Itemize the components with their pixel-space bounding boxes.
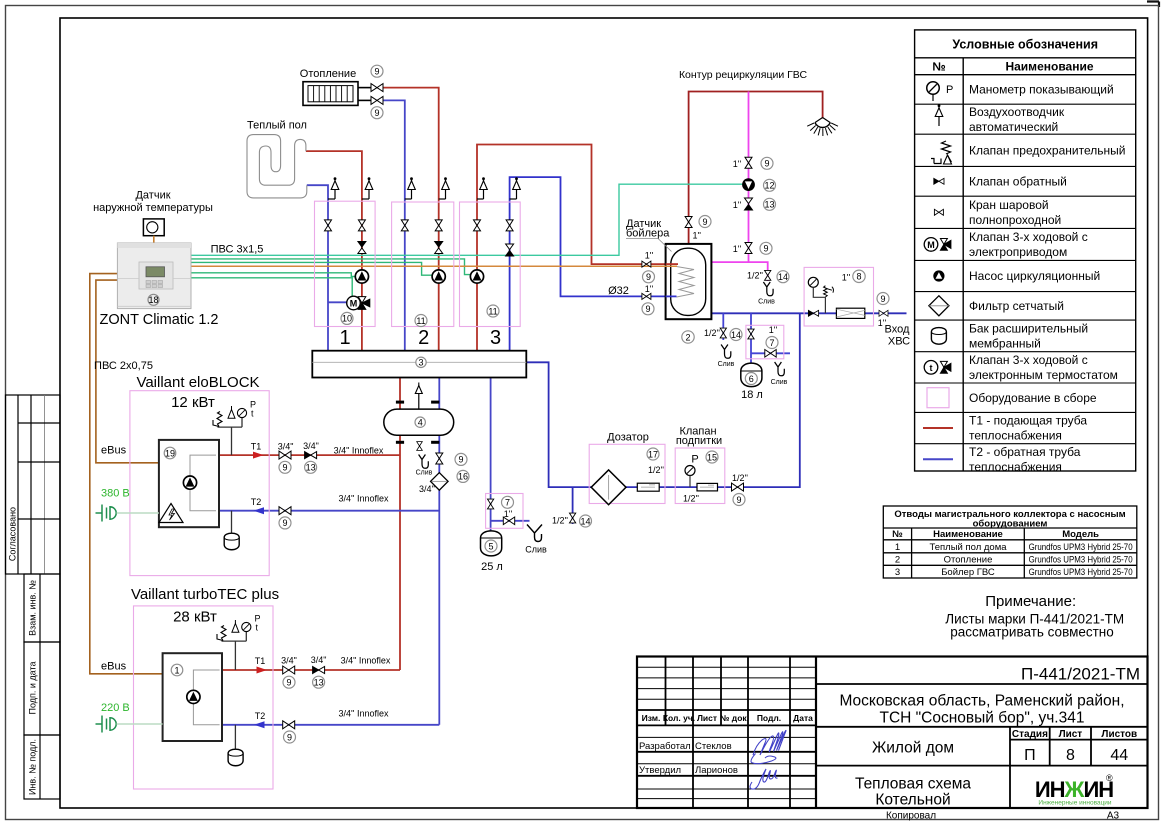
svg-text:Grundfos UPM3 Hybrid 25-70: Grundfos UPM3 Hybrid 25-70 [1029, 554, 1133, 565]
separator air vent [415, 383, 422, 410]
expansion tank 5 (25 л) [481, 531, 502, 556]
dosing unit box (17) [589, 444, 665, 503]
boiler turboTEC body [163, 653, 222, 741]
svg-text:9: 9 [374, 67, 379, 77]
pos 13 circle [313, 676, 325, 688]
svg-text:Наименование: Наименование [933, 529, 1003, 540]
svg-text:мембранный: мембранный [969, 337, 1041, 351]
svg-text:3/4": 3/4" [303, 441, 319, 451]
svg-text:1/2'': 1/2'' [732, 473, 748, 483]
corner artifact mark [1147, 2, 1159, 8]
title block frame [637, 657, 1148, 809]
wire green 5 (to 3-way valve M) [191, 278, 352, 297]
svg-text:Клапан обратный: Клапан обратный [969, 175, 1067, 189]
valve on tank 5 line [487, 499, 493, 509]
wire sensor bus green 3 (to pump 2) [191, 262, 432, 275]
valve boiler T1 inlet [642, 261, 651, 267]
svg-text:1'': 1'' [733, 200, 742, 210]
left margin stamp: Согласовано group [6, 395, 61, 574]
svg-text:11: 11 [416, 316, 425, 326]
pump group box 1 [315, 201, 376, 326]
svg-text:М: М [350, 299, 358, 309]
svg-text:7: 7 [769, 338, 774, 348]
valve eloBLOCK T2 [279, 507, 291, 515]
svg-text:автоматический: автоматический [969, 120, 1058, 134]
svg-text:Копировал: Копировал [886, 811, 936, 822]
main filter cartridge [836, 308, 864, 318]
boiler eloBLOCK assembly box [130, 391, 269, 576]
pos 14 circle [580, 515, 592, 527]
pos 11 circle group3 [487, 305, 499, 317]
check valve group3 [506, 244, 514, 256]
svg-text:оборудованием: оборудованием [973, 518, 1048, 529]
svg-text:ИНЖИН: ИНЖИН [1035, 777, 1113, 802]
svg-text:2: 2 [685, 332, 690, 342]
svg-text:9: 9 [282, 518, 287, 528]
svg-text:18 л: 18 л [741, 389, 763, 401]
collector (3) [312, 351, 526, 378]
tank 6 valve group box [746, 325, 784, 359]
pos 15 circle [706, 451, 718, 463]
wire sensor bus green 2 (to pump 3) [191, 259, 471, 275]
valve eloBLOCK T1 [279, 451, 291, 459]
svg-text:П-441/2021-ТМ: П-441/2021-ТМ [1021, 665, 1140, 684]
air vent group1 return [328, 177, 339, 199]
svg-text:Вход: Вход [885, 324, 910, 336]
svg-text:12: 12 [764, 181, 774, 191]
svg-text:подпитки: подпитки [676, 435, 722, 447]
pos 9 circle [761, 157, 773, 169]
ball valve group3 supply [474, 220, 481, 231]
svg-text:Инженерные инновации: Инженерные инновации [1038, 800, 1112, 807]
wire eBus to eloBLOCK [96, 280, 159, 463]
pos 7 circle [502, 496, 514, 508]
internal piping [193, 670, 219, 725]
internal piping [190, 455, 216, 511]
svg-text:13: 13 [306, 463, 316, 473]
svg-text:Слив: Слив [525, 545, 547, 555]
recirculation pump (12) [742, 178, 755, 191]
left margin stamp: Инв. № подл. [24, 735, 60, 799]
svg-text:Бойлер ГВС: Бойлер ГВС [941, 567, 995, 578]
svg-text:9: 9 [645, 304, 650, 314]
separator flanges [396, 402, 439, 442]
power plug eloBLOCK [96, 505, 117, 522]
svg-text:Воздухоотводчик: Воздухоотводчик [969, 105, 1065, 119]
tank 5 valve group box [486, 494, 523, 529]
wire sensor bus green 1 (to DHW recirc pump) [191, 184, 742, 255]
valve XBC inlet [879, 310, 888, 316]
wire T1 radiator supply [383, 88, 439, 351]
svg-text:ZONT Climatic 1.2: ZONT Climatic 1.2 [100, 312, 219, 328]
svg-text:1'': 1'' [842, 273, 851, 283]
svg-text:Grundfos UPM3 Hybrid 25-70: Grundfos UPM3 Hybrid 25-70 [1029, 542, 1133, 553]
svg-text:Т2 - обратная труба: Т2 - обратная труба [969, 445, 1081, 459]
flow arrow T1 [253, 452, 264, 459]
pos 9 circle [760, 242, 772, 254]
svg-text:25 л: 25 л [481, 561, 503, 573]
wire cold water main ХВС [711, 312, 906, 314]
svg-text:13: 13 [314, 678, 324, 688]
svg-text:1/2'': 1/2'' [704, 328, 720, 338]
svg-text:3/4": 3/4" [281, 656, 297, 666]
tank 6 drain hook [775, 362, 785, 376]
svg-text:9: 9 [764, 159, 769, 169]
svg-text:Модель: Модель [1062, 529, 1099, 540]
svg-text:Ø32: Ø32 [608, 285, 629, 297]
boiler coil zigzag [677, 267, 695, 298]
svg-text:9: 9 [287, 732, 292, 742]
valve turboTEC T2 [283, 721, 295, 729]
wire boiler drain branch [722, 313, 724, 340]
expansion tank eloBLOCK [224, 511, 239, 550]
svg-text:Подл.: Подл. [757, 713, 781, 723]
wire boiler sensor orange [191, 265, 677, 267]
svg-text:eBus: eBus [101, 661, 127, 673]
pos 9 circle [279, 461, 291, 473]
pos 9 circle [699, 216, 711, 228]
pos 11 circle group2 [415, 315, 427, 327]
legend sym: оборудование в сборе [927, 388, 949, 408]
svg-text:Кран шаровой: Кран шаровой [969, 198, 1049, 212]
svg-text:3: 3 [418, 357, 423, 367]
svg-text:Vaillant eloBLOCK: Vaillant eloBLOCK [136, 374, 259, 391]
pos 7 circle [766, 337, 778, 349]
legend sym: кран шаровой [934, 209, 943, 215]
svg-text:3/4'' Innoflex: 3/4'' Innoflex [339, 709, 389, 719]
pos 9 circle [371, 107, 383, 119]
svg-text:11: 11 [488, 306, 497, 316]
DHW tank boiler (2) [666, 244, 712, 319]
svg-text:Тепловая схема: Тепловая схема [855, 776, 971, 793]
title block texts [642, 713, 813, 723]
pos 16 circle [457, 470, 469, 482]
check valve group2 [435, 242, 443, 254]
svg-text:3/4": 3/4" [278, 442, 294, 452]
pos 4 circle separator [415, 417, 425, 427]
valve boiler T2 inlet [642, 293, 651, 299]
legend table Условные обозначения [915, 30, 1136, 471]
svg-text:3: 3 [895, 567, 900, 578]
svg-text:Теплый пол дома: Теплый пол дома [929, 542, 1007, 553]
wire T1 eloBLOCK [219, 454, 400, 456]
check valve DHW riser [745, 198, 753, 210]
svg-text:Клапан предохранительный: Клапан предохранительный [969, 144, 1125, 158]
svg-text:Манометр показывающий: Манометр показывающий [969, 83, 1114, 97]
svg-text:Слив: Слив [416, 470, 433, 477]
boiler T2 inlet stub [666, 295, 677, 297]
legend sym: бак расширительный [931, 328, 946, 345]
svg-text:Подп. и дата: Подп. и дата [28, 661, 38, 714]
wire make-up drain branch [572, 487, 574, 524]
wire expansion tank 6 branch [751, 313, 790, 363]
svg-text:Условные обозначения: Условные обозначения [952, 38, 1098, 52]
svg-text:№ док.: № док. [720, 713, 749, 723]
svg-text:М: М [927, 240, 935, 250]
svg-text:Московская область, Раменский: Московская область, Раменский район, [839, 693, 1124, 710]
check valve XBC [808, 310, 818, 316]
svg-text:Лист: Лист [697, 713, 717, 723]
svg-text:T2: T2 [251, 497, 262, 507]
svg-text:9: 9 [282, 463, 287, 473]
wire T2 DHW boiler loop return Ø32 [510, 177, 666, 351]
svg-text:Фильтр сетчатый: Фильтр сетчатый [969, 299, 1064, 313]
svg-text:А3: А3 [1107, 811, 1120, 822]
dosing cartridge [637, 483, 659, 491]
svg-text:9: 9 [702, 217, 707, 227]
pump 2 [432, 270, 445, 283]
svg-text:3/4" Innoflex: 3/4" Innoflex [341, 656, 391, 666]
svg-text:220 В: 220 В [101, 702, 130, 714]
svg-text:теплоснабжения: теплоснабжения [969, 429, 1062, 443]
svg-text:1'': 1'' [645, 284, 654, 294]
wire T2 floor heating return [307, 185, 328, 351]
P/t assembly turboTEC [217, 614, 261, 671]
separator drain hook [419, 455, 429, 469]
boiler drain valve (14) [720, 328, 726, 338]
make-up manometer [685, 466, 695, 488]
boiler eloBLOCK body [159, 440, 219, 527]
dosing filter diamond [591, 470, 626, 505]
make-up drain valve (14) [569, 513, 575, 523]
svg-text:15: 15 [707, 452, 717, 462]
svg-text:9: 9 [458, 455, 463, 465]
svg-text:Р: Р [946, 84, 953, 96]
svg-text:1'': 1'' [504, 509, 513, 519]
svg-text:электронным термостатом: электронным термостатом [969, 368, 1118, 382]
wire tank 5 drain branch [491, 520, 530, 522]
pump 3 [470, 270, 483, 283]
svg-text:Дозатор: Дозатор [607, 432, 649, 444]
wire T1 turboTEC [222, 669, 400, 671]
pos 9 circle [733, 494, 745, 506]
boiler turboTEC assembly box [134, 606, 274, 789]
shower head [807, 118, 838, 137]
svg-text:1'': 1'' [645, 251, 654, 261]
wire green 4 (to pump 1) [191, 273, 355, 277]
radiator Отопление [303, 82, 371, 106]
svg-text:380 В: 380 В [101, 488, 130, 500]
pos 14 circle [777, 271, 789, 283]
pos 17 circle [647, 448, 659, 460]
svg-text:t: t [930, 363, 933, 373]
svg-text:1/2'': 1/2'' [747, 271, 763, 281]
svg-text:1: 1 [895, 542, 900, 553]
svg-text:28 кВт: 28 кВт [173, 609, 217, 626]
pos 9 circle [283, 676, 295, 688]
ball valve group2 return [401, 220, 408, 231]
svg-text:1'': 1'' [693, 231, 702, 241]
svg-text:17: 17 [648, 449, 658, 459]
check valve eloBLOCK T1 [305, 452, 317, 459]
svg-text:бойлера: бойлера [626, 227, 670, 239]
svg-text:3/4'': 3/4'' [419, 484, 435, 494]
svg-text:Слив: Слив [771, 379, 788, 386]
pos 3 circle collector [416, 357, 426, 367]
svg-text:eBus: eBus [101, 445, 127, 457]
svg-text:Наименование: Наименование [1005, 60, 1093, 74]
svg-text:Котельной: Котельной [875, 792, 950, 809]
svg-text:®: ® [1106, 773, 1113, 783]
pos 2 circle boiler [682, 331, 694, 343]
svg-text:14: 14 [731, 330, 741, 340]
svg-text:Grundfos UPM3 Hybrid 25-70: Grundfos UPM3 Hybrid 25-70 [1029, 567, 1133, 578]
floor heating coil [247, 135, 307, 198]
valve radiator return [371, 96, 383, 104]
svg-text:2: 2 [895, 554, 900, 565]
svg-text:14: 14 [580, 516, 590, 526]
pos 19 circle [164, 447, 176, 459]
svg-text:ПВС 2х0,75: ПВС 2х0,75 [94, 360, 153, 372]
drain hook [527, 525, 542, 542]
svg-text:8: 8 [856, 272, 861, 282]
svg-text:1'': 1'' [769, 325, 778, 335]
svg-text:Листов: Листов [1101, 729, 1137, 740]
boiler pump [183, 476, 196, 489]
svg-text:Утвердил: Утвердил [639, 765, 681, 776]
svg-text:T1: T1 [251, 442, 262, 452]
pos 9 circle [455, 453, 467, 465]
valve tank 6 line [748, 329, 754, 339]
valve DHW riser top [745, 157, 752, 168]
svg-text:16: 16 [458, 472, 468, 482]
wire T1 collector to boilers riser [399, 378, 401, 671]
svg-text:9: 9 [763, 244, 768, 254]
pump 1 [355, 270, 368, 283]
air vent group1 supply [362, 177, 373, 199]
svg-text:Отопление: Отопление [944, 554, 993, 565]
valve DHW boiler top [685, 217, 692, 228]
svg-text:Инв. № подл.: Инв. № подл. [28, 739, 38, 795]
pos 9 circle [284, 731, 296, 743]
boiler drain hook [721, 345, 731, 359]
svg-text:Стеклов: Стеклов [695, 741, 732, 752]
svg-text:1/2'': 1/2'' [683, 494, 699, 504]
tank 6 drain valve horizontal [765, 350, 776, 358]
ball valve group1 return [325, 220, 332, 231]
svg-text:3/4'' Innoflex: 3/4'' Innoflex [339, 494, 389, 504]
svg-text:Т1 - подающая труба: Т1 - подающая труба [969, 414, 1087, 428]
pos 9 circle [643, 271, 655, 283]
svg-text:Жилой дом: Жилой дом [872, 740, 954, 757]
valve radiator supply [371, 84, 383, 92]
svg-text:П: П [1024, 747, 1036, 764]
pos 13 circle [305, 461, 317, 473]
legend sym: клапан предохранительный [931, 141, 952, 164]
3-way valve with drive (group1) [328, 296, 370, 310]
legend sym: клапан обратный [934, 178, 944, 184]
svg-text:ХВС: ХВС [888, 336, 910, 348]
svg-text:рассматривать совместно: рассматривать совместно [950, 625, 1114, 640]
wire make-up water line [526, 313, 800, 487]
svg-text:Слив: Слив [718, 361, 735, 368]
svg-text:электроприводом: электроприводом [969, 245, 1067, 259]
svg-text:3/4": 3/4" [311, 655, 327, 665]
pos 14 circle [730, 329, 742, 341]
pos 6 circle [745, 373, 757, 385]
air vent group3 supply [477, 177, 487, 199]
cold water inlet assembly box (8) [804, 267, 873, 326]
svg-text:Слив: Слив [758, 299, 775, 306]
svg-text:Дата: Дата [793, 713, 813, 723]
svg-text:T2: T2 [255, 711, 266, 721]
wire T2 collector to boilers riser [438, 378, 440, 725]
ball valve group3 return [506, 220, 513, 231]
expansion tank turboTEC [228, 725, 243, 766]
flow arrow T1 [257, 667, 268, 674]
flow arrow T2 [254, 721, 265, 728]
svg-text:Теплый пол: Теплый пол [247, 120, 307, 132]
wire T2 radiator return [383, 100, 405, 350]
wire DHW recirculation loop [689, 92, 823, 244]
wire DHW hot supply magenta [711, 92, 767, 282]
svg-text:5: 5 [488, 541, 493, 551]
wire expansion line to tank 5 [490, 378, 492, 531]
svg-text:8: 8 [1066, 747, 1075, 764]
svg-text:12 кВт: 12 кВт [171, 394, 215, 411]
svg-text:№: № [892, 529, 903, 540]
svg-text:Согласовано: Согласовано [8, 507, 18, 561]
svg-text:Насос циркуляционный: Насос циркуляционный [969, 269, 1100, 283]
valve DHW riser bottom [745, 243, 752, 254]
pos 10 circle [341, 312, 353, 324]
controller ZONT Climatic 1.2 [117, 243, 191, 309]
wire T2 turboTEC [222, 724, 439, 726]
pos 5 circle [485, 540, 497, 552]
svg-text:2: 2 [418, 327, 429, 349]
svg-text:9: 9 [880, 294, 885, 304]
svg-text:6: 6 [749, 374, 754, 384]
check valve group1 [358, 242, 366, 254]
separator drain valve [417, 442, 423, 451]
legend sym: Т1 line [923, 427, 953, 429]
pos 8 circle [853, 270, 865, 282]
check valve turboTEC T1 [313, 667, 325, 674]
ball valve group1 supply [358, 220, 365, 231]
pos 9 circle [371, 65, 383, 77]
valve turboTEC T1 [283, 666, 295, 674]
signature scribbles [750, 730, 786, 789]
svg-text:4: 4 [418, 417, 423, 427]
legend sym: насос [933, 270, 944, 281]
svg-text:Изм.: Изм. [642, 713, 661, 723]
legend sym: клапан 3-х ходовой с термостатом [924, 361, 951, 375]
manometer XBC [808, 277, 825, 313]
svg-text:Клапан 3-х ходовой с: Клапан 3-х ходовой с [969, 230, 1088, 244]
outdoor temperature sensor [143, 219, 164, 243]
svg-text:Лист: Лист [1059, 729, 1083, 740]
pump group box 2 [392, 202, 454, 327]
legend sym: воздухоотводчик [935, 104, 943, 126]
svg-text:№: № [932, 60, 945, 74]
svg-text:полнопроходной: полнопроходной [969, 213, 1061, 227]
svg-text:Разработал: Разработал [639, 741, 691, 752]
svg-text:наружной температуры: наружной температуры [93, 202, 213, 214]
pos 12 circle [764, 179, 776, 191]
svg-text:Датчик: Датчик [135, 190, 170, 202]
pos 13 circle [764, 198, 776, 210]
electric warning triangle [159, 504, 183, 523]
safety valve XBC [824, 286, 834, 297]
svg-text:9: 9 [646, 272, 651, 282]
wire T1 floor heating supply [306, 151, 362, 351]
svg-text:ПВС 3х1,5: ПВС 3х1,5 [211, 244, 264, 256]
DHW drain hook [763, 282, 773, 296]
boiler T1 inlet stub [666, 263, 678, 265]
DHW drain valve [765, 270, 771, 280]
svg-text:1: 1 [174, 665, 179, 675]
svg-text:Vaillant turboTEC plus: Vaillant turboTEC plus [131, 586, 279, 603]
